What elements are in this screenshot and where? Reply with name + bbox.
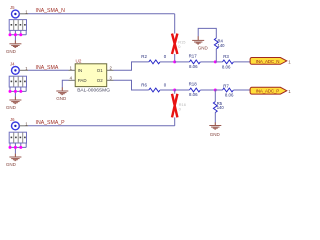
- svg-text:GND: GND: [6, 162, 17, 167]
- net label INA_SMA: [36, 65, 59, 71]
- svg-text:INA_SMA_N: INA_SMA_N: [36, 8, 66, 14]
- U2 part value BAL-0006SMG: [77, 88, 110, 94]
- ground GND below U2: [56, 87, 68, 101]
- ground GND below J5: [6, 40, 22, 54]
- wire U2 pad to ground: [62, 80, 68, 87]
- resistor R15 (DNI, crossed out): [172, 34, 186, 54]
- svg-text:IN: IN: [78, 68, 82, 73]
- junction node bottom-right: [214, 89, 217, 92]
- resistor R17: [175, 53, 216, 69]
- wire U2 O2 to bottom branch: [114, 80, 149, 90]
- svg-text:O2: O2: [97, 78, 103, 83]
- ground GND near R4: [192, 28, 216, 50]
- resistor R7: [215, 83, 250, 97]
- net label INA_SMA_P: [36, 120, 66, 126]
- U2 pin 4: [69, 76, 76, 81]
- resistor R6: [141, 82, 167, 92]
- J6 shield ground wires: [10, 143, 26, 154]
- svg-text:140: 140: [217, 105, 225, 110]
- net label INA_SMA_N: [36, 8, 66, 14]
- wire top vertical into DNI R15: [174, 14, 176, 34]
- pin 1 of J5: [19, 9, 28, 14]
- svg-text:8.06: 8.06: [225, 93, 234, 98]
- connector J4: [10, 62, 19, 75]
- svg-text:R6: R6: [141, 82, 147, 87]
- svg-text:U2: U2: [76, 58, 82, 63]
- U2 pin 2: [107, 66, 114, 71]
- resistor R16 (DNI, crossed out): [172, 90, 187, 117]
- connector J5: [10, 5, 19, 18]
- U2 pin 1: [69, 66, 76, 71]
- svg-text:J5: J5: [10, 5, 15, 10]
- svg-text:GND: GND: [6, 49, 17, 54]
- svg-text:R18: R18: [189, 82, 198, 87]
- wire R2 to junction: [160, 61, 175, 63]
- svg-text:8.06: 8.06: [189, 64, 198, 69]
- pin 1 of J6: [19, 121, 28, 126]
- junction dots J6 shield: [9, 146, 23, 149]
- J6 shield block (pins 2-5): [9, 132, 26, 143]
- svg-text:PAD: PAD: [78, 78, 87, 83]
- wire net INA_SMA_N: [28, 13, 175, 15]
- ground GND below J4: [6, 97, 22, 111]
- svg-text:R17: R17: [189, 53, 198, 58]
- resistor R5: [213, 90, 224, 123]
- svg-text:GND: GND: [56, 96, 67, 101]
- svg-text:GND: GND: [210, 132, 221, 137]
- svg-text:R3: R3: [223, 54, 229, 59]
- J5 shield block (pins 2-5): [9, 20, 26, 31]
- svg-text:GND: GND: [6, 105, 17, 110]
- pin 1 of J4: [19, 66, 28, 71]
- ground GND below R5: [209, 122, 221, 136]
- J4 shield block (pins 2-5): [9, 76, 26, 87]
- wire net INA_SMA: [28, 69, 69, 71]
- connector J6: [10, 117, 19, 130]
- svg-text:R2: R2: [141, 54, 147, 59]
- wire net INA_SMA_P: [28, 125, 175, 127]
- junction node top-right: [214, 60, 217, 63]
- svg-text:INA_ADC_N: INA_ADC_N: [256, 59, 279, 64]
- ground GND below J6: [6, 154, 22, 167]
- resistor R2: [141, 54, 167, 64]
- J5 shield ground wires: [10, 30, 26, 40]
- svg-text:INA_ADC_P: INA_ADC_P: [256, 89, 279, 94]
- port INA_ADC_N: [250, 58, 287, 65]
- svg-text:R7: R7: [223, 83, 229, 88]
- svg-text:BAL-0006SMG: BAL-0006SMG: [77, 88, 110, 94]
- pin 1 of port INA_ADC_N: [288, 60, 291, 65]
- junction dots J5 shield: [9, 33, 23, 36]
- junction node top-left: [173, 60, 176, 63]
- port INA_ADC_P: [250, 87, 287, 94]
- wire R6 to junction: [160, 89, 175, 91]
- svg-text:O1: O1: [97, 68, 103, 73]
- svg-text:8.06: 8.06: [189, 92, 198, 97]
- resistor R4: [214, 38, 225, 62]
- wire U2 O1 to top branch: [114, 62, 149, 70]
- svg-text:GND: GND: [198, 45, 209, 50]
- svg-text:8.06: 8.06: [222, 65, 231, 70]
- J4 shield ground wires: [10, 87, 26, 97]
- U2 pin 3: [107, 76, 114, 81]
- svg-text:J6: J6: [10, 117, 15, 122]
- wire R15 to junction: [174, 54, 176, 62]
- junction dots J4 shield: [9, 90, 23, 93]
- pin 1 of port INA_ADC_P: [288, 89, 291, 94]
- junction node bottom-left: [173, 89, 176, 92]
- svg-text:INA_SMA: INA_SMA: [36, 65, 59, 71]
- svg-text:J4: J4: [10, 62, 15, 67]
- balun U2: [75, 58, 107, 86]
- svg-text:140: 140: [218, 43, 226, 48]
- resistor R18: [175, 82, 216, 98]
- resistor R3: [215, 54, 250, 69]
- svg-text:INA_SMA_P: INA_SMA_P: [36, 120, 66, 126]
- wire R16 to INA_SMA_P: [174, 117, 176, 125]
